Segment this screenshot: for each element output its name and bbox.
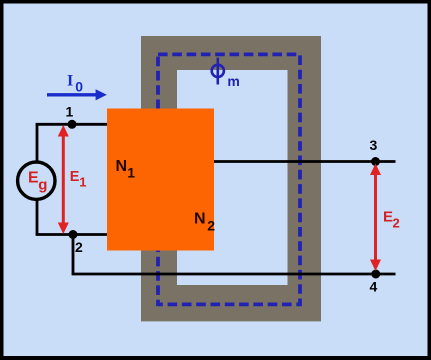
wire: left vertical upper (to Eg) xyxy=(36,124,39,162)
transformer core xyxy=(141,36,321,321)
node 4 xyxy=(371,270,380,279)
svg-text:3: 3 xyxy=(370,137,378,153)
svg-text:N: N xyxy=(116,158,128,175)
svg-text:1: 1 xyxy=(79,175,86,190)
svg-text:0: 0 xyxy=(75,79,83,95)
wire: node3 horizontal xyxy=(214,160,396,163)
wire: left vertical lower (from Eg) xyxy=(36,199,39,234)
svg-text:E: E xyxy=(383,209,393,226)
source Eg xyxy=(18,162,55,199)
svg-text:E: E xyxy=(70,169,80,185)
wire: bottom long horizontal to node4 xyxy=(72,273,396,276)
winding block N1/N2 xyxy=(107,109,214,251)
svg-text:4: 4 xyxy=(370,279,378,295)
voltage arrow E1 xyxy=(58,125,69,234)
node 3 xyxy=(371,157,380,166)
svg-text:2: 2 xyxy=(207,218,215,234)
svg-text:m: m xyxy=(227,73,239,89)
svg-text:g: g xyxy=(38,177,47,194)
svg-text:2: 2 xyxy=(75,239,83,255)
flux path (dashed) xyxy=(158,54,300,304)
wire: node2 horizontal xyxy=(36,233,107,236)
flux symbol Phi_m xyxy=(212,58,224,85)
node 1 xyxy=(68,120,77,129)
svg-text:1: 1 xyxy=(66,104,74,120)
node 2 xyxy=(69,230,78,239)
svg-text:I: I xyxy=(67,72,73,89)
svg-text:N: N xyxy=(194,211,206,228)
wire: node1 horizontal xyxy=(36,123,107,126)
wire: node2 drop vertical xyxy=(72,235,75,275)
current arrow I0 xyxy=(47,89,107,100)
voltage arrow E2 xyxy=(370,164,381,272)
svg-text:1: 1 xyxy=(127,165,135,181)
svg-text:2: 2 xyxy=(393,216,400,231)
